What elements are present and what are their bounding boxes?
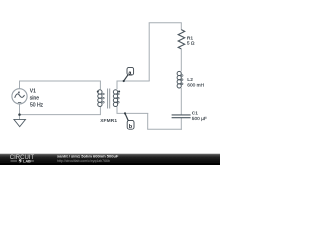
transformer secondary phase dot	[118, 90, 120, 92]
wire bottom rail left	[19, 114, 101, 116]
wire top rail right	[149, 22, 182, 24]
wire R1 top lead	[180, 23, 182, 30]
junction dot at V1/ground node	[18, 113, 21, 116]
wire primary top lead	[99, 81, 101, 89]
svg-text:500 µF: 500 µF	[192, 116, 207, 122]
transformer XFMR1 secondary winding	[113, 90, 119, 107]
wire L2 to C1	[180, 88, 182, 115]
svg-text:600 mH: 600 mH	[187, 83, 204, 89]
transformer XFMR1 primary winding	[98, 90, 104, 107]
svg-text:5 Ω: 5 Ω	[187, 40, 195, 46]
svg-text:LAB: LAB	[23, 160, 31, 164]
resistor R1	[178, 30, 185, 49]
wire primary bottom lead	[99, 107, 101, 115]
wire V1 top stub	[19, 81, 21, 89]
svg-text:V1: V1	[30, 89, 36, 95]
wire R1 to L2	[180, 49, 182, 72]
svg-text:http://circuitlab.com/c/xyq4ab: http://circuitlab.com/c/xyq4ab766b	[57, 159, 110, 163]
transformer core	[108, 89, 110, 109]
wire secondary bottom lead	[116, 107, 118, 114]
svg-text:xanht / sim1 5ohm 600mh 500uF: xanht / sim1 5ohm 600mh 500uF	[57, 153, 119, 158]
ground	[14, 119, 26, 126]
voltage source V1	[12, 89, 27, 104]
wire top rail left	[19, 80, 101, 82]
svg-text:XFMR1: XFMR1	[100, 118, 117, 124]
svg-text:L2: L2	[187, 77, 193, 83]
wire bottom dip run	[147, 128, 182, 130]
svg-text:sine: sine	[30, 96, 39, 102]
wire secondary bottom run	[117, 112, 149, 114]
inductor L2	[177, 71, 183, 88]
watermark banner	[0, 153, 220, 165]
wire secondary top run	[117, 80, 150, 82]
wire dip riser	[147, 113, 149, 129]
wire secondary top lead	[116, 81, 118, 89]
capacitor C1	[172, 115, 191, 118]
wire right riser	[148, 23, 150, 81]
node a flag	[123, 67, 134, 82]
wire V1 bottom stub	[19, 104, 21, 119]
svg-text:50 Hz: 50 Hz	[30, 102, 44, 108]
transformer primary phase dot	[97, 90, 99, 92]
svg-text:C1: C1	[192, 110, 198, 116]
wire C1 bottom lead	[180, 118, 182, 130]
node b flag	[124, 112, 134, 130]
